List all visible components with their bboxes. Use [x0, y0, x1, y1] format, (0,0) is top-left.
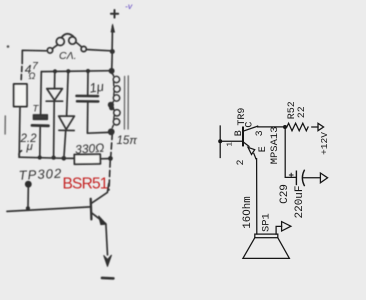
svg-text:SP1: SP1 — [261, 213, 273, 232]
transformer core lines — [124, 76, 128, 129]
bottom rail wire — [19, 151, 66, 159]
ground triangle after C29 — [320, 173, 327, 183]
svg-text:1: 1 — [227, 141, 235, 146]
label TP302 — [18, 166, 63, 183]
wire R47 bottom lead down to bottom rail — [18, 107, 21, 158]
svg-text:BSR51: BSR51 — [63, 176, 108, 193]
label 3 — [255, 130, 266, 136]
svg-text:B: B — [234, 130, 245, 136]
junction node at +V — [110, 49, 115, 54]
pin label 1 — [227, 141, 235, 146]
resistor 47 ohm body — [14, 84, 27, 107]
R330 right lead — [100, 158, 108, 160]
capacitor 1u — [77, 71, 110, 133]
svg-text:E: E — [258, 146, 269, 152]
label 2.2u — [20, 133, 38, 153]
label 1u — [88, 79, 104, 96]
R330 left lead — [66, 157, 75, 159]
svg-text:MPSA13: MPSA13 — [269, 126, 281, 164]
wire R52 to +12V terminal — [312, 126, 318, 128]
label 220uF — [294, 185, 306, 218]
base wire — [220, 140, 242, 142]
label 16Ohm — [242, 196, 254, 228]
emitter wire down to speaker — [255, 159, 258, 234]
label MPSA13 — [269, 126, 281, 164]
svg-text:2: 2 — [236, 159, 247, 165]
top rail wire — [41, 70, 111, 73]
wire +V node to lamp right terminal — [86, 50, 110, 51]
base wire to transistor — [7, 207, 91, 212]
svg-text:3: 3 — [255, 130, 266, 136]
junction dot R330 right — [108, 156, 113, 161]
svg-text:220uF: 220uF — [294, 185, 306, 218]
lamp CL element (two terminals with coil loops) — [47, 34, 86, 53]
resistor R52 zigzag — [287, 123, 308, 131]
diode D2 — [59, 71, 75, 157]
minus terminal — [102, 277, 113, 280]
wire collector node down to C29 — [285, 127, 296, 177]
junction dot bottom rail (diode1 lead) — [52, 156, 56, 160]
junction dot top rail (cap 1u) — [86, 69, 90, 73]
label 22 — [297, 106, 308, 118]
transistor TR9 — [243, 126, 258, 158]
junction dot top rail (diode2) — [66, 69, 70, 73]
svg-text:-v: -v — [125, 1, 133, 11]
stray mark line left edge — [4, 116, 6, 134]
resistor 330 ohm body — [74, 154, 100, 164]
svg-text:15π: 15π — [117, 135, 138, 147]
capacitor C29 — [289, 170, 320, 185]
speaker SP1 — [243, 234, 290, 258]
capacitor 2.2u leads and plates (T cap) — [32, 72, 48, 157]
label 15 turns — [117, 135, 138, 147]
svg-text:+12V: +12V — [319, 132, 330, 155]
label R52 — [287, 101, 298, 119]
svg-text:22: 22 — [297, 106, 308, 118]
speaker return wire — [276, 226, 282, 234]
wire +V node down to transformer top — [111, 54, 113, 69]
label SP1 — [261, 213, 273, 232]
positive supply terminal + — [111, 10, 118, 18]
transformer winding 15 turns — [108, 68, 120, 135]
svg-text:CΛ.: CΛ. — [59, 50, 77, 62]
svg-text:16Ohm: 16Ohm — [242, 196, 254, 228]
ground triangle at speaker — [282, 222, 291, 231]
junction dot collector node — [283, 125, 287, 129]
collector wire — [258, 125, 285, 128]
diode D1 — [46, 72, 62, 158]
svg-text:1μ: 1μ — [88, 79, 104, 96]
label 2 — [236, 159, 247, 165]
right CAD schematic group — [218, 101, 330, 258]
test point terminal TP302 — [25, 181, 32, 209]
left hand-drawn schematic group — [5, 1, 137, 278]
svg-text:μ: μ — [26, 141, 34, 153]
wire lamp left terminal to corner and down (sketchy) — [21, 50, 46, 79]
label C — [245, 122, 256, 128]
dash-dot collector net wire (transformer bottom to transistor collector) — [109, 134, 112, 191]
label BSR51 (red) — [63, 176, 108, 193]
junction dot bottom rail (cap lead) — [38, 155, 42, 159]
label TR9 — [237, 108, 248, 126]
junction dot bottom rail (diode2 / R330 lead) — [62, 156, 67, 161]
input wire stub (pin 1 net) — [219, 126, 221, 158]
junction dot base wire — [26, 206, 30, 210]
label T — [33, 104, 40, 115]
junction dot input — [218, 139, 222, 143]
wire from + down to node, with up arrow — [111, 24, 115, 50]
junction dot top rail (diode1) — [53, 69, 57, 73]
net label -V — [125, 1, 133, 11]
label CΛ. — [59, 50, 77, 62]
label +12V — [319, 132, 330, 155]
label 47 ohm — [25, 60, 39, 81]
label E — [258, 146, 269, 152]
emitter arrow to minus — [104, 255, 112, 266]
svg-text:C: C — [245, 122, 256, 128]
svg-text:C29: C29 — [279, 184, 291, 204]
label 330 ohm — [75, 141, 105, 157]
label B — [234, 130, 245, 136]
label C29 — [279, 184, 291, 204]
transistor BSR51 — [91, 184, 109, 255]
stray mark dot top left — [7, 45, 10, 48]
svg-text:Ω: Ω — [29, 71, 36, 81]
svg-text:TP302: TP302 — [18, 166, 63, 183]
+12V terminal arrow — [318, 123, 324, 130]
